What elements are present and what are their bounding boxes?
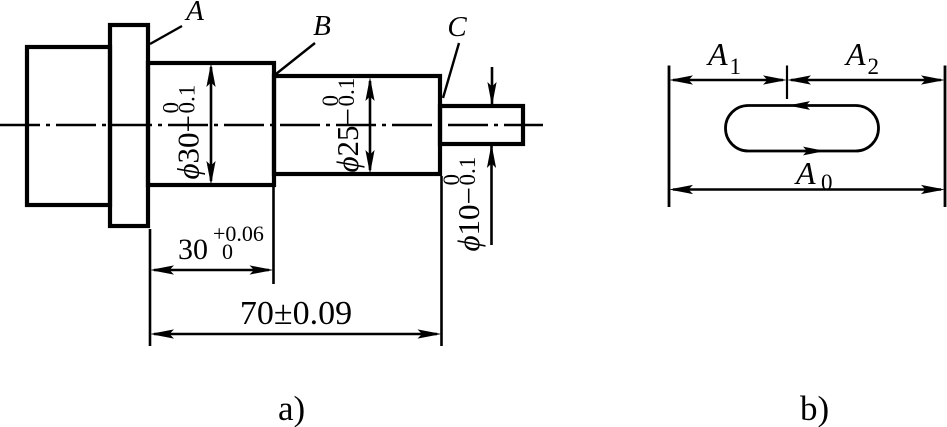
svg-text:ϕ30−: ϕ30− <box>171 115 206 180</box>
dimension phi30 line <box>206 63 215 185</box>
svg-text:A: A <box>844 36 866 72</box>
svg-text:0: 0 <box>222 239 233 264</box>
dimension 30 text <box>178 221 264 266</box>
svg-text:b): b) <box>800 389 829 427</box>
svg-text:C: C <box>447 11 467 43</box>
svg-text:A: A <box>794 155 816 191</box>
dimension 70 line <box>150 329 442 338</box>
dimension phi25 text <box>318 78 365 173</box>
label A1 <box>706 36 741 79</box>
dimension phi30 text <box>159 85 206 180</box>
svg-text:ϕ25−: ϕ25− <box>330 108 365 173</box>
svg-text:0: 0 <box>821 170 833 195</box>
svg-text:0: 0 <box>159 102 184 114</box>
svg-text:A: A <box>706 36 728 72</box>
svg-text:0: 0 <box>318 95 343 107</box>
dimension phi10 text <box>439 157 486 252</box>
b diagram: middle tick <box>786 66 788 100</box>
dimension phi25 line <box>365 77 374 174</box>
centerline <box>0 124 543 127</box>
left block <box>27 47 110 205</box>
phi10 shaft <box>440 106 523 144</box>
stadium slot <box>726 106 879 152</box>
phi25 section <box>274 76 440 174</box>
svg-text:A: A <box>184 0 204 27</box>
svg-text:70±0.09: 70±0.09 <box>240 295 352 332</box>
leader B <box>276 43 315 74</box>
dimension phi10 upper arrow <box>487 67 496 106</box>
leader C <box>443 43 459 98</box>
dimension 30 extension lines <box>149 229 152 346</box>
dimension A2 line <box>787 75 945 84</box>
b diagram: right boundary line <box>944 66 947 208</box>
svg-text:1: 1 <box>730 54 742 79</box>
svg-text:+0.06: +0.06 <box>213 221 264 246</box>
stadium top arrow (left) <box>788 101 810 110</box>
b diagram: left boundary line <box>668 66 671 208</box>
svg-text:2: 2 <box>868 54 880 79</box>
dimension 30 line <box>150 265 274 274</box>
flange <box>110 25 148 226</box>
label A2 <box>844 36 879 79</box>
dimension A0 line <box>669 185 945 194</box>
svg-text:30: 30 <box>178 233 208 266</box>
leader A <box>150 26 182 44</box>
dimension A1 line <box>669 75 787 84</box>
svg-text:ϕ10−: ϕ10− <box>451 187 486 252</box>
dimension phi10 lower arrow <box>487 144 496 245</box>
phi30 section <box>148 63 274 185</box>
label A0 <box>794 155 833 195</box>
svg-text:B: B <box>313 10 331 42</box>
dimension 70 extension line <box>440 176 443 346</box>
stadium bottom arrow (right) <box>803 147 825 156</box>
svg-text:a): a) <box>278 389 305 427</box>
